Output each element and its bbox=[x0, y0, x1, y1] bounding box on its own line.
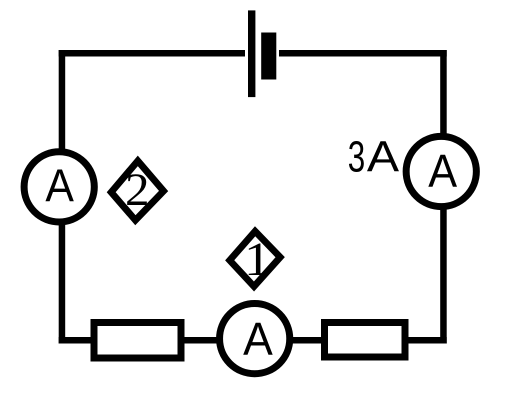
svg-text:A: A bbox=[45, 161, 74, 212]
svg-text:A: A bbox=[367, 131, 399, 181]
wire right side lower bbox=[440, 200, 447, 344]
wire bottom between R1 and ammeter A1 bbox=[180, 337, 225, 344]
label diamond 2 outline bbox=[111, 161, 163, 220]
wire left side lower bbox=[59, 215, 66, 344]
wire right side upper bbox=[440, 50, 447, 145]
label diamond 1 outline bbox=[230, 231, 281, 286]
wire bottom between ammeter A1 and R2 bbox=[285, 337, 328, 344]
battery B1 short thick plate bbox=[261, 33, 276, 80]
svg-text:A: A bbox=[428, 147, 457, 197]
svg-text:A: A bbox=[243, 314, 273, 366]
resistor R1 (bottom left) bbox=[94, 323, 181, 359]
resistor R2 (bottom right) bbox=[325, 323, 406, 358]
ammeter A3 circle (right) bbox=[406, 136, 476, 206]
battery B1 long plate bbox=[248, 10, 255, 97]
wire top left segment bbox=[59, 50, 245, 57]
ammeter A2 circle (left) bbox=[24, 152, 94, 222]
svg-text:3: 3 bbox=[348, 132, 365, 181]
ammeter A1 circle (bottom middle) bbox=[220, 304, 290, 374]
wire left side upper bbox=[59, 50, 66, 160]
svg-text:1: 1 bbox=[244, 234, 271, 287]
svg-text:2: 2 bbox=[125, 164, 150, 216]
wire bottom right segment bbox=[403, 337, 447, 344]
wire bottom left segment bbox=[59, 337, 100, 344]
wire top right segment bbox=[279, 50, 447, 57]
